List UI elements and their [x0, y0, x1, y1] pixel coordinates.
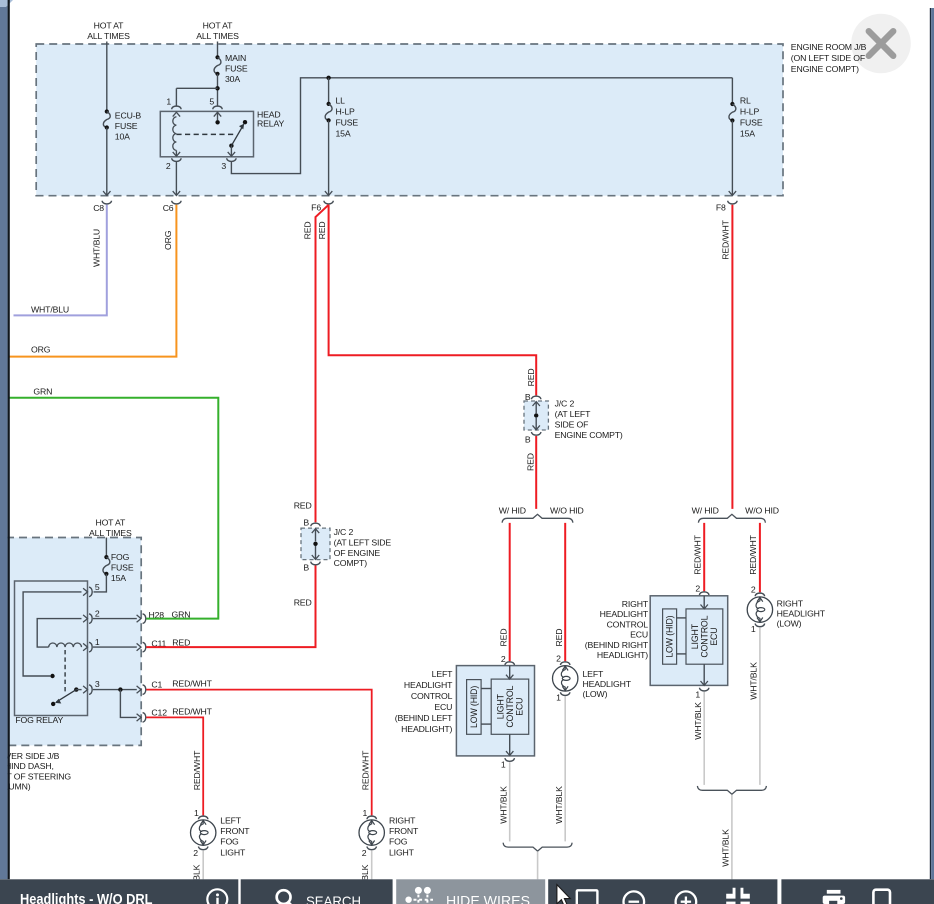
engine room J/B box: [36, 44, 783, 196]
svg-text:HEADLIGHT): HEADLIGHT): [597, 650, 648, 660]
wire MAIN fuse to relay pin 5: [217, 74, 219, 106]
node merge right WHT/BLK: [697, 786, 766, 794]
relay FOG RELAY: [15, 581, 88, 716]
svg-text:5: 5: [95, 582, 100, 592]
svg-text:HEADLIGHT: HEADLIGHT: [583, 679, 632, 689]
svg-text:2: 2: [501, 654, 506, 664]
svg-text:HEADLIGHT): HEADLIGHT): [401, 724, 452, 734]
svg-text:RIGHT: RIGHT: [777, 599, 804, 609]
svg-text:RED/WHT: RED/WHT: [172, 707, 212, 717]
svg-text:RED: RED: [317, 221, 327, 239]
svg-text:LEFT: LEFT: [220, 816, 241, 826]
pin 3 fog relay: [76, 689, 81, 691]
svg-text:HIDE WIRES: HIDE WIRES: [446, 893, 530, 904]
svg-text:W/O HID: W/O HID: [550, 506, 584, 516]
svg-text:B: B: [525, 435, 531, 445]
fit view icon: [726, 888, 735, 899]
svg-text:CONTROL: CONTROL: [607, 620, 649, 630]
wire RED/WHT from C1 to right front fog light: [146, 690, 371, 816]
wire relay pin 2 to C6: [175, 162, 177, 195]
svg-text:2: 2: [166, 161, 171, 171]
svg-text:ORG: ORG: [163, 230, 173, 250]
wire branch to relay pin 1: [176, 87, 217, 89]
svg-text:FUSE: FUSE: [336, 117, 359, 127]
svg-text:RED: RED: [525, 453, 535, 471]
connector F8: [728, 201, 738, 204]
wire RED J/C2 right to HID split: [535, 436, 537, 509]
svg-text:HEADLIGHT: HEADLIGHT: [600, 609, 649, 619]
wire RED/WHT from F8: [731, 205, 733, 509]
svg-text:OF ENGINE: OF ENGINE: [334, 548, 381, 558]
wire ORG from C6: [9, 205, 176, 357]
svg-text:LOW (HID): LOW (HID): [665, 615, 675, 657]
wire RED from F6 to J/C 2 (left) and C11: [316, 205, 329, 523]
svg-text:ALL TIMES: ALL TIMES: [87, 31, 130, 41]
svg-text:1: 1: [363, 808, 368, 818]
wire ECU-B fuse to C8: [106, 128, 108, 196]
svg-text:ECU-B: ECU-B: [115, 111, 142, 121]
svg-text:RED: RED: [499, 629, 509, 647]
wire to LL fuse: [328, 78, 330, 104]
svg-text:HEADLIGHT: HEADLIGHT: [404, 680, 453, 690]
svg-text:30A: 30A: [225, 74, 240, 84]
svg-text:WHT/BLU: WHT/BLU: [31, 305, 69, 315]
svg-text:SEARCH: SEARCH: [306, 894, 361, 904]
svg-text:ECU: ECU: [709, 628, 719, 646]
wire drop to C12: [120, 690, 136, 718]
svg-text:C6: C6: [163, 203, 174, 213]
wire RED to left headlight control ECU: [509, 523, 511, 661]
connector C8: [102, 201, 112, 204]
wire RED/WHT to right headlight control ECU: [703, 523, 705, 591]
svg-text:ENGINE ROOM J/B: ENGINE ROOM J/B: [791, 42, 867, 52]
wire merged WHT/BLK left: [537, 851, 539, 880]
wire RED/WHT to right headlight: [759, 523, 761, 592]
svg-text:Headlights - W/O DRL: Headlights - W/O DRL: [20, 891, 153, 904]
svg-text:15A: 15A: [111, 573, 126, 583]
svg-text:2: 2: [751, 585, 756, 595]
svg-text:WHT/BLK: WHT/BLK: [498, 786, 508, 824]
svg-text:FUSE: FUSE: [740, 117, 763, 127]
svg-text:HOT AT: HOT AT: [95, 517, 126, 527]
svg-text:2: 2: [193, 848, 198, 858]
zoom out icon: [624, 891, 645, 904]
svg-text:F6: F6: [311, 203, 321, 213]
svg-text:(LOW): (LOW): [777, 619, 802, 629]
svg-text:1: 1: [194, 808, 199, 818]
relay coil: [173, 112, 180, 116]
svg-text:ENGINE COMPT): ENGINE COMPT): [791, 64, 859, 74]
wire WHT/BLU from C8: [14, 205, 107, 316]
wire GRN from H28: [8, 398, 218, 619]
svg-text:RED/WHT: RED/WHT: [360, 750, 370, 790]
close button: [851, 14, 911, 74]
wire WHT/BLK from left ECU pin 1: [509, 762, 511, 841]
page right edge strip: [930, 8, 931, 879]
svg-text:MAIN: MAIN: [225, 53, 246, 63]
svg-text:ECU: ECU: [630, 630, 648, 640]
svg-text:W/ HID: W/ HID: [499, 506, 526, 516]
relay linkage (dashed): [176, 133, 236, 135]
svg-text:RED/WHT: RED/WHT: [172, 678, 212, 688]
page left edge strip: [0, 0, 8, 879]
pin 1 fog relay: [83, 643, 87, 650]
svg-text:LEFT OF STEERING: LEFT OF STEERING: [0, 771, 71, 781]
wire WHT/BLK from left headlight: [564, 696, 566, 841]
wire WHT/BLK from right fog light: [371, 851, 373, 880]
fog relay linkage (dashed): [64, 650, 66, 694]
svg-text:HEADLIGHT: HEADLIGHT: [777, 609, 826, 619]
inner box LIGHT CONTROL ECU: [491, 679, 529, 734]
fog relay internal wire pin2 to coil: [37, 619, 81, 648]
driver side J/B box: [0, 538, 141, 746]
svg-text:FOG: FOG: [389, 837, 408, 847]
svg-text:H-LP: H-LP: [336, 106, 356, 116]
svg-text:ENGINE COMPT): ENGINE COMPT): [555, 430, 623, 440]
pin 5 fog relay: [83, 588, 87, 595]
svg-text:RED/WHT: RED/WHT: [692, 534, 702, 574]
fog relay switch: [74, 687, 78, 691]
svg-text:COMPT): COMPT): [334, 558, 368, 568]
svg-text:ECU: ECU: [434, 702, 452, 712]
svg-text:LIGHT: LIGHT: [389, 847, 415, 857]
svg-text:(BEHIND LEFT: (BEHIND LEFT: [395, 713, 453, 723]
inner box LOW (HID): [467, 680, 482, 735]
svg-text:RELAY: RELAY: [257, 119, 284, 129]
svg-text:LL: LL: [336, 95, 346, 105]
mobile icon: [873, 890, 890, 904]
svg-text:LOW (HID): LOW (HID): [469, 686, 479, 728]
relay switch: [243, 120, 247, 124]
svg-text:15A: 15A: [336, 128, 351, 138]
svg-text:15A: 15A: [740, 128, 755, 138]
svg-text:5: 5: [209, 96, 214, 106]
connector C11: [143, 642, 146, 652]
svg-text:1: 1: [556, 693, 561, 703]
node junction at MAIN fuse branch: [215, 86, 219, 90]
wire RED to left headlight: [564, 523, 566, 661]
wire WHT/BLK from left fog light: [202, 851, 204, 880]
svg-text:1: 1: [95, 637, 100, 647]
wire LL fuse to F6: [328, 120, 330, 195]
pin 1 left ECU: [505, 758, 515, 761]
connector H28: [143, 614, 146, 624]
svg-text:RED: RED: [302, 221, 312, 239]
svg-text:1: 1: [695, 689, 700, 699]
wire hot to FOG fuse: [105, 538, 107, 558]
svg-text:RED: RED: [294, 500, 312, 510]
svg-text:HOT AT: HOT AT: [94, 21, 125, 31]
svg-text:FUSE: FUSE: [115, 121, 138, 131]
fuse FOG FUSE 15A: [104, 555, 108, 559]
svg-text:1: 1: [166, 96, 171, 106]
svg-text:2: 2: [556, 654, 561, 664]
svg-text:ALL TIMES: ALL TIMES: [196, 31, 239, 41]
svg-text:CONTROL: CONTROL: [411, 691, 453, 701]
wire from hot to ECU-B fuse: [106, 42, 108, 112]
svg-text:ECU: ECU: [514, 698, 524, 716]
svg-text:(AT LEFT: (AT LEFT: [555, 409, 591, 419]
connector C1: [143, 685, 146, 695]
wire FOG fuse to relay pin 5: [94, 574, 107, 592]
selection square icon: [577, 890, 598, 904]
svg-text:WHT/BLK: WHT/BLK: [749, 662, 759, 700]
svg-text:WHT/BLK: WHT/BLK: [554, 786, 564, 824]
fuse RL H-LP FUSE 15A: [730, 102, 734, 106]
wire relay pin 3 to H-LP fuses: [231, 78, 732, 174]
wire RED/WHT from C12 to left front fog light: [146, 717, 203, 815]
mouse cursor: [557, 885, 570, 904]
svg-text:W/O HID: W/O HID: [745, 506, 779, 516]
wire pin1 to C11: [93, 646, 137, 648]
svg-text:HOT AT: HOT AT: [203, 21, 234, 31]
svg-text:(ON LEFT SIDE OF: (ON LEFT SIDE OF: [791, 53, 865, 63]
wire WHT/BLK from right ECU pin 1: [703, 692, 705, 785]
svg-text:H-LP: H-LP: [740, 106, 760, 116]
svg-text:RED: RED: [294, 597, 312, 607]
wire WHT/BLK from right headlight: [759, 628, 761, 785]
svg-text:RED/WHT: RED/WHT: [192, 750, 202, 790]
print icon: [827, 890, 841, 894]
pin 2 fog relay: [83, 615, 87, 622]
wire pin3 to C1/C12: [93, 689, 137, 691]
svg-text:2: 2: [695, 584, 700, 594]
fog relay coil: [49, 643, 82, 647]
svg-text:1: 1: [751, 624, 756, 634]
svg-text:J/C 2: J/C 2: [334, 527, 354, 537]
svg-text:B: B: [303, 518, 309, 528]
wire RED from C11 joins J/C2 left drop: [146, 565, 315, 647]
svg-text:RED/WHT: RED/WHT: [748, 534, 758, 574]
svg-text:LEFT: LEFT: [583, 669, 604, 679]
inner box LIGHT CONTROL ECU right: [686, 609, 723, 664]
relay pin 5 contact: [214, 112, 221, 116]
svg-text:1: 1: [501, 760, 506, 770]
wire from hot to MAIN fuse: [217, 42, 219, 58]
svg-text:(LOW): (LOW): [583, 689, 608, 699]
fog relay internal wire pin5 to common: [23, 592, 81, 676]
svg-text:C8: C8: [93, 203, 104, 213]
svg-text:C1: C1: [151, 679, 162, 689]
wire pin2 to H28: [93, 618, 137, 620]
connector F6: [324, 201, 334, 204]
svg-text:3: 3: [221, 161, 226, 171]
node merge left WHT/BLK: [503, 843, 572, 851]
svg-text:RIGHT: RIGHT: [389, 816, 416, 826]
svg-text:FUSE: FUSE: [111, 562, 134, 572]
svg-text:SIDE OF: SIDE OF: [555, 420, 589, 430]
svg-text:FOG RELAY: FOG RELAY: [15, 715, 63, 725]
wire RL fuse to F8: [731, 121, 733, 196]
svg-text:10A: 10A: [115, 132, 130, 142]
svg-text:RL: RL: [740, 95, 751, 105]
connector C6: [172, 201, 182, 204]
svg-text:GRN: GRN: [33, 387, 52, 397]
svg-text:(BEHIND RIGHT: (BEHIND RIGHT: [585, 640, 649, 650]
connector C12: [143, 713, 146, 723]
fuse MAIN FUSE 30A: [215, 55, 219, 59]
svg-text:LIGHT: LIGHT: [220, 847, 246, 857]
wire RL fuse feed: [731, 78, 733, 104]
svg-text:FRONT: FRONT: [220, 826, 250, 836]
wire merged WHT/BLK right: [731, 795, 733, 880]
zoom in icon: [676, 891, 697, 904]
svg-text:F8: F8: [716, 202, 726, 212]
svg-text:3: 3: [95, 679, 100, 689]
hide wires icon: [405, 897, 411, 903]
fuse ECU-B FUSE 10A: [105, 109, 109, 113]
pin 1 right ECU: [699, 688, 709, 691]
svg-text:W/ HID: W/ HID: [692, 506, 719, 516]
svg-text:FOG: FOG: [220, 837, 239, 847]
svg-text:RED: RED: [526, 368, 536, 386]
fuse LL H-LP FUSE 15A: [327, 102, 331, 106]
svg-text:J/C 2: J/C 2: [555, 399, 575, 409]
svg-text:B: B: [525, 392, 531, 402]
svg-text:WHT/BLU: WHT/BLU: [91, 229, 101, 267]
svg-text:2: 2: [362, 848, 367, 858]
svg-text:(AT LEFT SIDE: (AT LEFT SIDE: [334, 537, 392, 547]
svg-text:FUSE: FUSE: [225, 64, 248, 74]
info icon: [207, 889, 227, 904]
svg-text:ORG: ORG: [31, 344, 51, 354]
svg-text:WHT/BLK: WHT/BLK: [721, 829, 731, 867]
svg-text:LEFT: LEFT: [432, 669, 453, 679]
search icon: [277, 890, 291, 904]
svg-text:WHT/BLK: WHT/BLK: [693, 702, 703, 740]
svg-text:RED: RED: [554, 629, 564, 647]
svg-text:RIGHT: RIGHT: [622, 599, 649, 609]
inner box LOW (HID) right: [663, 609, 677, 664]
svg-text:RED/WHT: RED/WHT: [720, 219, 730, 259]
svg-text:C12: C12: [151, 708, 167, 718]
wire RED from F6 to J/C 2 (right): [329, 205, 537, 396]
toolbar background segments: [0, 879, 934, 904]
svg-text:ALL TIMES: ALL TIMES: [89, 528, 132, 538]
svg-text:B: B: [303, 563, 309, 573]
node junction LL fuse tap: [326, 76, 330, 80]
svg-text:FRONT: FRONT: [389, 826, 419, 836]
svg-text:2: 2: [95, 609, 100, 619]
svg-text:FOG: FOG: [111, 552, 130, 562]
